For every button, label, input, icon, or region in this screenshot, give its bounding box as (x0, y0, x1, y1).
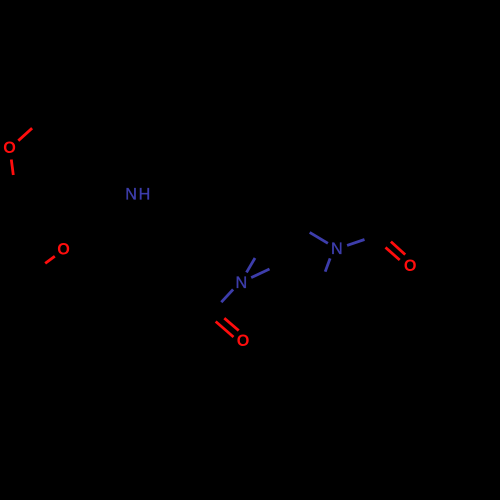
svg-text:O: O (3, 139, 16, 157)
svg-text:O: O (404, 257, 417, 275)
svg-text:N: N (331, 240, 343, 258)
bond C-O1 upper half (red) (18, 128, 32, 141)
svg-text:N: N (125, 186, 137, 204)
bond N2-C lower half (blue) (325, 258, 330, 271)
svg-text:O: O (237, 332, 250, 350)
bond N1-C(=O) half (blue) (221, 289, 233, 302)
svg-text:H: H (139, 186, 151, 204)
carbonyl C=O double bond halves (red), right amide (391, 242, 405, 255)
carbonyl C=O double bond halves (red), lower amide (224, 318, 238, 330)
bond O2-CH3 half (red) (45, 256, 55, 263)
bond N2-C upper-left half (blue) (310, 232, 328, 243)
bond O1-C lower half (red) (11, 160, 13, 176)
bond N1-C right half (blue) (251, 269, 269, 278)
bond N1-C upper half (blue) (247, 258, 256, 272)
bond N2-C(=O) right half (blue) (347, 240, 364, 246)
svg-text:O: O (57, 240, 70, 258)
svg-text:N: N (236, 274, 248, 292)
